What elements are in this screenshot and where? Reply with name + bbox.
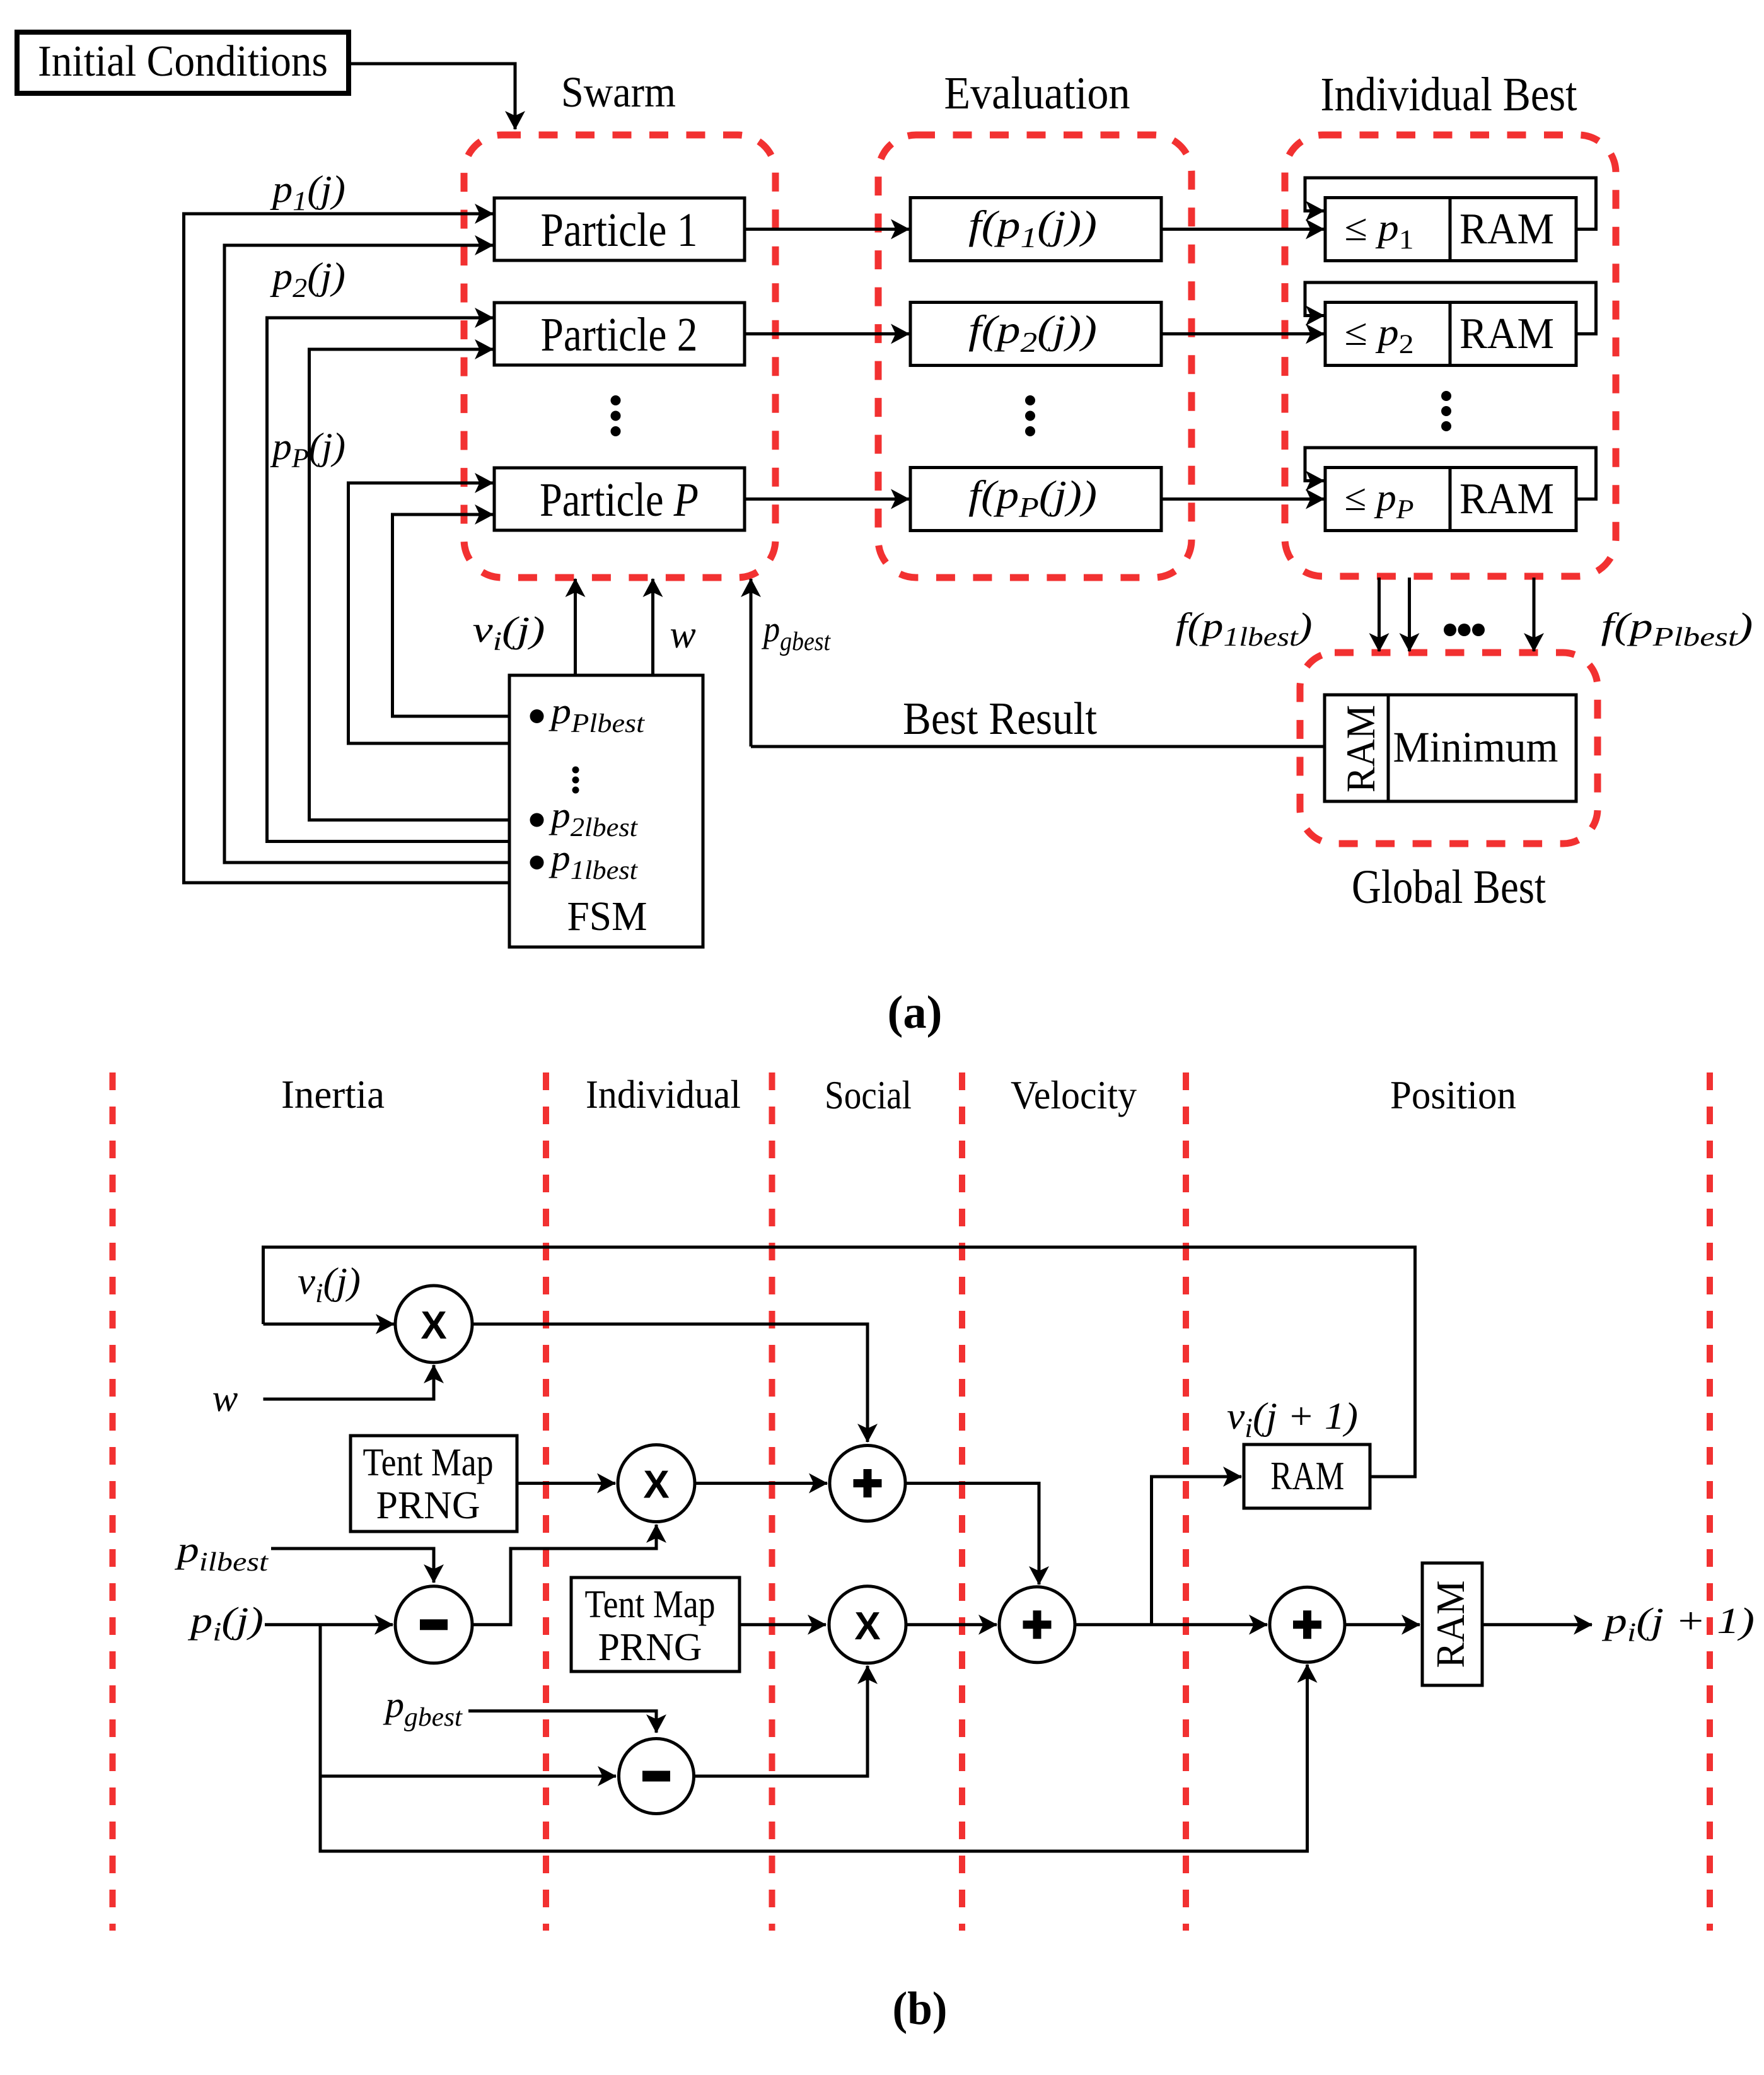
svg-text:pilbest: pilbest: [174, 1529, 269, 1577]
svg-text:Best Result: Best Result: [903, 693, 1097, 744]
svg-text:f(pPlbest): f(pPlbest): [1601, 605, 1753, 652]
svg-text:FSM: FSM: [567, 893, 647, 939]
svg-text:PRNG: PRNG: [598, 1626, 702, 1669]
svg-text:Individual Best: Individual Best: [1321, 68, 1577, 121]
svg-text:Position: Position: [1390, 1072, 1516, 1117]
svg-text:pgbest: pgbest: [383, 1684, 463, 1732]
svg-text:Evaluation: Evaluation: [944, 67, 1130, 119]
svg-text:Particle 1: Particle 1: [541, 204, 698, 257]
svg-text:Minimum: Minimum: [1393, 723, 1558, 771]
svg-text:(a): (a): [888, 987, 943, 1038]
svg-text:pi(j): pi(j): [187, 1600, 264, 1647]
svg-text:p1(j): p1(j): [270, 168, 345, 216]
svg-text:PRNG: PRNG: [376, 1484, 480, 1527]
svg-text:RAM: RAM: [1428, 1581, 1473, 1668]
svg-text:pgbest: pgbest: [761, 608, 831, 656]
svg-text:Inertia: Inertia: [281, 1072, 385, 1117]
svg-text:Velocity: Velocity: [1011, 1072, 1137, 1117]
svg-text:f(p1lbest): f(p1lbest): [1176, 605, 1313, 652]
svg-text:(b): (b): [893, 1983, 948, 2035]
svg-text:Swarm: Swarm: [561, 68, 676, 116]
svg-text:Social: Social: [825, 1072, 912, 1117]
svg-text:RAM: RAM: [1459, 310, 1554, 358]
svg-text:Tent Map: Tent Map: [363, 1441, 494, 1484]
svg-text:Particle 2: Particle 2: [541, 308, 698, 361]
svg-text:w: w: [212, 1378, 238, 1420]
svg-text:Particle P: Particle P: [540, 474, 699, 526]
svg-text:p2(j): p2(j): [270, 255, 345, 303]
svg-text:RAM: RAM: [1338, 705, 1384, 793]
svg-text:Global Best: Global Best: [1352, 861, 1546, 914]
svg-text:RAM: RAM: [1459, 205, 1554, 253]
svg-text:Initial Conditions: Initial Conditions: [38, 37, 328, 86]
svg-text:X: X: [643, 1463, 669, 1507]
svg-text:vi(j): vi(j): [473, 609, 545, 656]
svg-text:vi(j): vi(j): [298, 1260, 361, 1308]
svg-text:vi(j + 1): vi(j + 1): [1227, 1395, 1358, 1443]
svg-text:X: X: [854, 1605, 880, 1648]
svg-text:pP(j): pP(j): [270, 426, 345, 474]
svg-text:pi(j + 1): pi(j + 1): [1601, 1600, 1755, 1648]
svg-text:Individual: Individual: [586, 1072, 741, 1117]
svg-text:RAM: RAM: [1270, 1453, 1344, 1498]
svg-text:RAM: RAM: [1459, 475, 1554, 523]
svg-text:w: w: [670, 613, 695, 656]
svg-text:Tent Map: Tent Map: [585, 1583, 716, 1626]
svg-text:X: X: [421, 1304, 446, 1347]
